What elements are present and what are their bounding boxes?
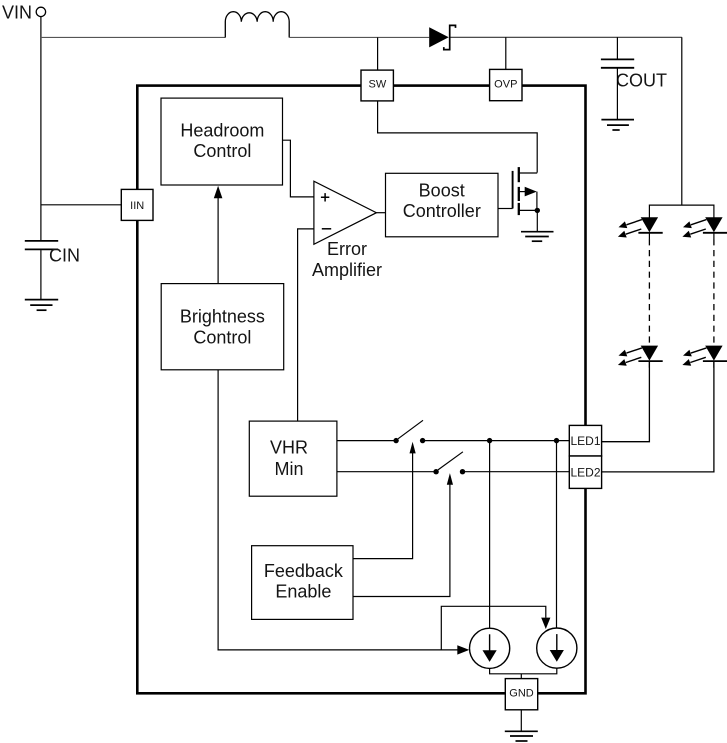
current source I1 bbox=[470, 628, 510, 668]
svg-text:VHR: VHR bbox=[270, 438, 308, 458]
wire branch to OVP pin bbox=[505, 37, 507, 69]
svg-text:LED1: LED1 bbox=[570, 434, 600, 448]
block Feedback Enable bbox=[252, 546, 353, 620]
block Brightness Control bbox=[161, 284, 284, 370]
LED D5 string2 bottom bbox=[682, 346, 727, 368]
wire string2 to LED2 pin bbox=[602, 361, 714, 472]
svg-text:Brightness: Brightness bbox=[180, 307, 265, 327]
switch S1 blade bbox=[398, 420, 423, 439]
wire VIN vertical to CIN bbox=[40, 17, 42, 241]
wire string1 to LED1 pin bbox=[602, 361, 650, 442]
wire Brightness to Headroom arrow bbox=[217, 198, 219, 284]
current source I2 bbox=[537, 628, 577, 668]
LED D4 string2 top bbox=[682, 217, 727, 239]
op-amp minus sign bbox=[322, 228, 331, 230]
svg-text:Feedback: Feedback bbox=[264, 561, 344, 581]
block Headroom Control bbox=[161, 98, 283, 185]
node switch S2 right bbox=[460, 469, 465, 474]
svg-text:Control: Control bbox=[193, 141, 251, 161]
ground COUT bbox=[601, 120, 634, 130]
pin box SW bbox=[361, 70, 393, 101]
wire VHR Min to switch2 (LED2 line) bbox=[337, 471, 436, 473]
wire GND pin to ground bbox=[520, 710, 522, 731]
node junction to right current source bbox=[554, 438, 559, 443]
wire op-amp minus to VHR Min bbox=[298, 229, 314, 421]
wire op-amp output to Boost Controller bbox=[376, 212, 385, 214]
wire LED string splitter bbox=[649, 205, 714, 217]
pin box IIN bbox=[121, 189, 153, 220]
node switch S1 right bbox=[420, 438, 425, 443]
svg-text:Controller: Controller bbox=[403, 201, 481, 221]
wire Brightness Control to left current source bbox=[218, 370, 457, 650]
LED D2 string1 top bbox=[618, 217, 663, 239]
svg-text:Amplifier: Amplifier bbox=[312, 260, 382, 280]
VIN terminal bbox=[36, 7, 45, 16]
wire switch2 to LED2 pin bbox=[463, 471, 570, 473]
LED D3 string1 bottom bbox=[618, 346, 663, 368]
wire diode cathode to output rail bbox=[451, 36, 682, 38]
wire SW pin to MOSFET drain bbox=[378, 101, 538, 173]
node switch S2 left bbox=[433, 469, 438, 474]
capacitor CIN plates bbox=[25, 240, 58, 242]
wire branch to COUT bbox=[616, 37, 618, 59]
svg-text:Control: Control bbox=[193, 328, 251, 348]
node junction to left current source bbox=[487, 438, 492, 443]
wire Feedback Enable to switch2 arrow bbox=[353, 484, 450, 597]
svg-text:Error: Error bbox=[327, 239, 367, 259]
wire current sources to GND pin bbox=[490, 668, 557, 678]
block VHR Min bbox=[249, 421, 337, 496]
wire COUT to ground bbox=[616, 69, 618, 120]
pin box OVP bbox=[490, 69, 522, 100]
wire LED1 junction down to right current source bbox=[556, 441, 558, 628]
svg-text:IIN: IIN bbox=[130, 200, 144, 212]
wire VIN branch to IIN pin bbox=[41, 204, 121, 206]
wire dashed string1 bbox=[648, 239, 650, 345]
svg-text:Boost: Boost bbox=[419, 180, 465, 200]
wire branch to SW pin bbox=[377, 37, 379, 70]
IC boundary bbox=[137, 86, 585, 694]
wire LED1 junction down to left current source bbox=[489, 441, 491, 629]
svg-text:COUT: COUT bbox=[616, 71, 667, 91]
wire output rail down to LED strings bbox=[681, 37, 683, 205]
wire CIN to ground bbox=[40, 250, 42, 299]
wire switch1 to LED1 pin bbox=[423, 440, 570, 442]
wire VHR Min to switch1 (LED1 line) bbox=[337, 440, 396, 442]
op-amp plus sign bbox=[321, 193, 329, 201]
node switch S1 left bbox=[393, 438, 398, 443]
wire branch to right current source bbox=[441, 606, 546, 650]
ground MOSFET source bbox=[521, 232, 554, 242]
wire VIN to inductor bbox=[41, 36, 225, 38]
diode D1 Schottky triangle bbox=[429, 27, 449, 47]
wire Boost Controller to gate bbox=[498, 208, 513, 210]
transistor Q1 MOSFET bbox=[513, 167, 540, 231]
capacitor COUT plates bbox=[601, 58, 634, 60]
pin box LED2 bbox=[569, 456, 601, 488]
svg-text:VIN: VIN bbox=[2, 3, 32, 23]
svg-text:OVP: OVP bbox=[494, 78, 517, 90]
wire inductor to diode anode bbox=[289, 36, 429, 38]
block Boost Controller bbox=[386, 173, 499, 237]
wire Feedback Enable to switch1 arrow bbox=[353, 453, 413, 559]
inductor L1 bbox=[225, 12, 289, 38]
svg-text:GND: GND bbox=[509, 688, 534, 700]
ground GND bbox=[505, 731, 538, 741]
wire dashed string2 bbox=[713, 239, 715, 345]
svg-text:Enable: Enable bbox=[275, 582, 331, 602]
svg-text:SW: SW bbox=[369, 78, 387, 90]
pin box LED1 bbox=[569, 425, 601, 456]
diode D1 Schottky cathode bar bbox=[444, 25, 456, 49]
wire Headroom to op-amp plus bbox=[283, 140, 314, 197]
switch S2 blade bbox=[438, 452, 463, 470]
svg-text:Min: Min bbox=[274, 459, 303, 479]
svg-text:Headroom: Headroom bbox=[180, 121, 264, 141]
op-amp U1 error amplifier bbox=[314, 181, 377, 244]
ground CIN bbox=[25, 300, 58, 311]
pin box GND bbox=[505, 679, 537, 710]
svg-text:CIN: CIN bbox=[49, 246, 80, 266]
svg-text:LED2: LED2 bbox=[570, 466, 600, 480]
